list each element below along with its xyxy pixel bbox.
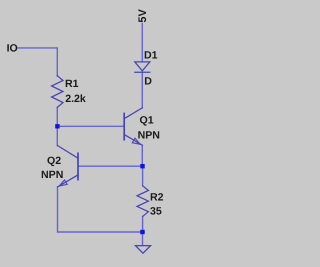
svg-text:NPN: NPN xyxy=(41,169,63,181)
svg-text:D1: D1 xyxy=(144,50,158,62)
svg-text:Q1: Q1 xyxy=(140,115,154,127)
svg-text:2.2k: 2.2k xyxy=(65,93,86,105)
svg-text:35: 35 xyxy=(150,206,162,218)
svg-text:Q2: Q2 xyxy=(47,155,61,167)
svg-text:R1: R1 xyxy=(65,78,79,90)
svg-text:R2: R2 xyxy=(150,192,164,204)
svg-text:IO: IO xyxy=(7,42,18,54)
svg-text:5V: 5V xyxy=(137,8,149,22)
svg-text:D: D xyxy=(144,76,152,88)
svg-text:NPN: NPN xyxy=(138,130,160,142)
